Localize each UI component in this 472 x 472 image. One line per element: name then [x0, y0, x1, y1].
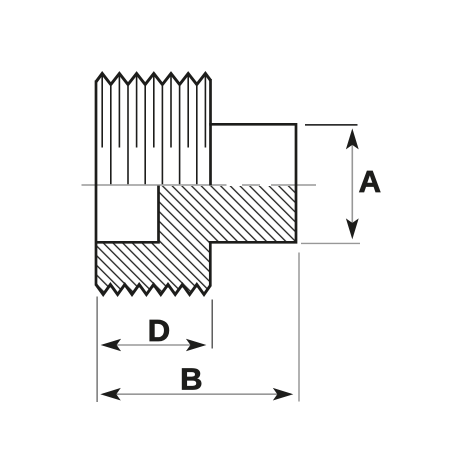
dimension B line	[103, 393, 291, 395]
knurled head left edge	[95, 81, 98, 286]
hatched cross-section region	[96, 186, 295, 295]
extension line A top	[305, 124, 358, 126]
dimension D arrow right	[186, 339, 207, 352]
dimension A arrow up	[346, 128, 359, 149]
extension line D right	[211, 300, 213, 349]
dimension B arrow left	[100, 388, 121, 401]
extension line left (D/B)	[96, 297, 98, 403]
svg-text:A: A	[359, 164, 381, 199]
knurl vertical lines (peaks, short)	[102, 76, 205, 148]
dimension D arrow left	[101, 339, 122, 352]
knurled head top zigzag	[96, 74, 211, 85]
dimension A line	[351, 131, 353, 237]
dimension A arrow down	[346, 218, 359, 239]
dimension D line	[103, 344, 204, 346]
knurled head right edge	[209, 79, 212, 186]
small cylinder outline (top, right, bottom, step)	[209, 124, 296, 285]
svg-text:B: B	[180, 361, 202, 396]
bore notch outline (section cavity)	[95, 186, 159, 243]
extension line B right	[298, 253, 300, 402]
svg-text:D: D	[148, 313, 170, 348]
dimension B arrow right	[273, 388, 294, 401]
centerline	[82, 184, 317, 186]
bottom thread zigzag	[96, 285, 211, 295]
knurl vertical lines (valleys, long to centerline)	[111, 86, 197, 184]
extension line A bottom	[301, 242, 360, 244]
